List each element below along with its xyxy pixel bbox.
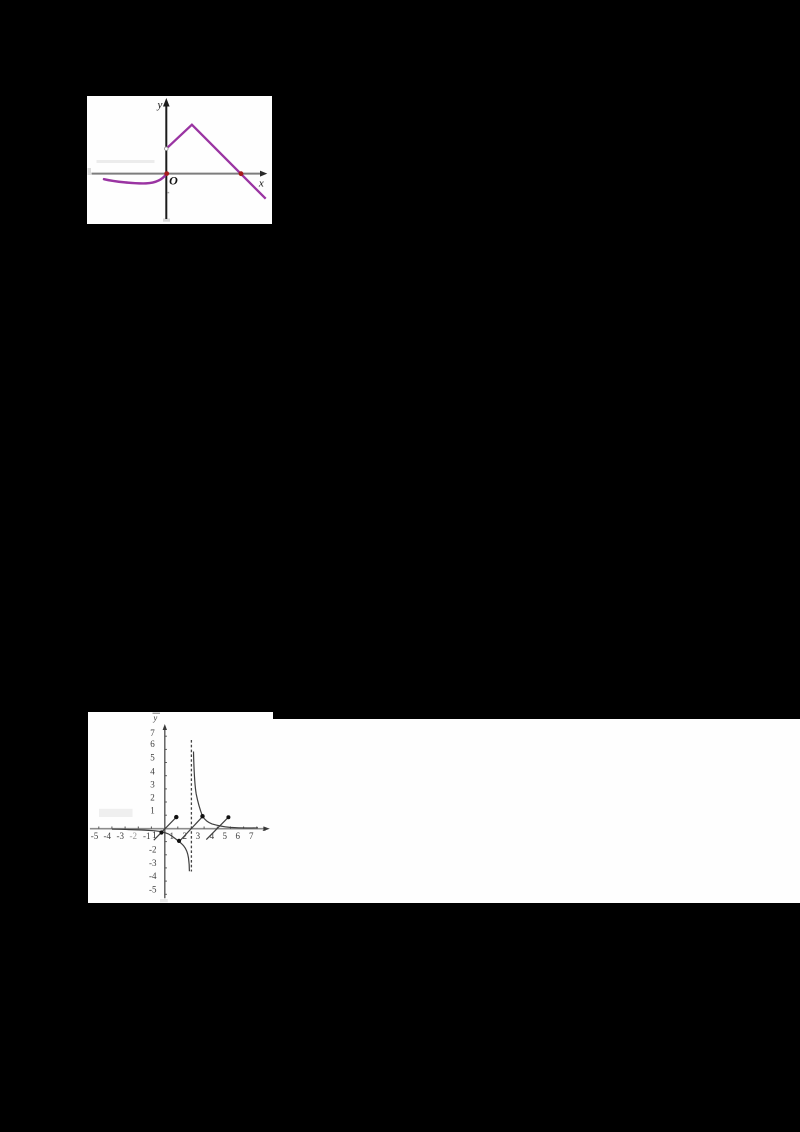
y-axis: [163, 724, 167, 898]
open circle endpoint on y-axis: [165, 147, 169, 151]
svg-text:7: 7: [150, 728, 155, 738]
red dot on x-axis: [239, 171, 244, 176]
segment from (3,-1) to (5,1): [206, 817, 228, 839]
segment from (1,-1) to (3,1): [179, 816, 203, 841]
bottom axis smudge artifact: [160, 899, 168, 902]
bottom axis smudge artifact: [163, 219, 170, 222]
svg-text:5: 5: [150, 753, 155, 763]
svg-text:-5: -5: [91, 831, 99, 841]
figure 1 white panel: [87, 96, 272, 224]
dot at (1,-1): [177, 839, 181, 843]
faint gray band artifact: [99, 809, 133, 817]
svg-text:-3: -3: [117, 831, 125, 841]
figure 1 chart: [87, 96, 272, 224]
hyperbola right branch: [194, 752, 259, 829]
macron bar above y label: [153, 713, 161, 714]
svg-text:y: y: [157, 99, 163, 111]
svg-text:-2: -2: [149, 844, 157, 854]
svg-text:-3: -3: [149, 858, 157, 868]
segment y=x with endpoint dot: [154, 817, 177, 840]
left-edge gray blob artifact: [88, 168, 92, 175]
figure 2 white panel: [88, 712, 273, 903]
svg-text:6: 6: [235, 831, 240, 841]
white paragraph band: [271, 719, 800, 903]
svg-text:-4: -4: [149, 871, 157, 881]
x-axis: [92, 171, 268, 177]
y tick labels: [149, 728, 157, 895]
y-axis ticks: [165, 736, 167, 894]
svg-text:3: 3: [150, 780, 155, 790]
y-axis: [163, 98, 170, 219]
x-axis: [90, 826, 270, 831]
hyperbola left branch: [112, 829, 189, 871]
dot near origin: [159, 830, 163, 834]
red dot at origin: [164, 171, 169, 176]
dot at (5,1): [226, 815, 230, 819]
dot at (1,1): [174, 815, 178, 819]
dot at (3,1): [200, 814, 204, 818]
svg-text:-4: -4: [104, 831, 112, 841]
svg-text:O: O: [169, 173, 178, 187]
purple curve left branch: [104, 174, 167, 184]
svg-text:7: 7: [249, 831, 254, 841]
svg-text:x: x: [258, 178, 264, 190]
svg-text:2: 2: [150, 793, 155, 803]
small tick below origin on y-axis: [167, 192, 169, 193]
svg-text:-5: -5: [149, 884, 157, 894]
svg-text:4: 4: [150, 767, 155, 777]
x-axis ticks: [99, 827, 257, 829]
purple curve right branch: [166, 125, 265, 199]
faint gray band artifact: [97, 160, 155, 163]
svg-text:3: 3: [196, 831, 201, 841]
dashed asymptote x=2: [190, 740, 192, 872]
svg-text:5: 5: [222, 831, 227, 841]
svg-text:-2: -2: [130, 831, 138, 841]
svg-text:1: 1: [150, 806, 155, 816]
svg-text:y: y: [153, 713, 158, 723]
figure 2 chart: [88, 712, 290, 903]
svg-text:6: 6: [150, 739, 155, 749]
x tick labels: [91, 831, 254, 841]
svg-text:-1: -1: [143, 831, 151, 841]
